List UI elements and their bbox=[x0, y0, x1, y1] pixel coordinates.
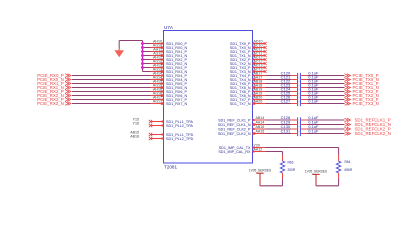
wire stub bus to pin row 4 bbox=[143, 55, 151, 57]
capacitor C120 0.1uF (series AC coupling) bbox=[281, 70, 319, 78]
pin SD1_RX5_N (AG15) left row 12 bbox=[151, 84, 188, 90]
svg-text:T2081: T2081 bbox=[164, 164, 177, 169]
port PCIE_TX2_N bbox=[345, 93, 379, 98]
IC U7A (T2081 SerDes block) body bbox=[164, 31, 253, 164]
pin SD1_REF_CLK1_P (AB14) bbox=[218, 116, 265, 122]
wire capacitor C124 to port PCIE_TX2_P bbox=[307, 91, 345, 93]
wire net PCIE_RX1_N bbox=[72, 87, 151, 89]
svg-text:PCIE_TX3_N: PCIE_TX3_N bbox=[353, 101, 379, 106]
resistor R63 200R bbox=[280, 155, 296, 179]
no-ERC marker on pin SD1_PLL1_TPD bbox=[149, 133, 152, 136]
port SD1_REFCLK2_N bbox=[345, 131, 391, 136]
svg-text:AA14: AA14 bbox=[256, 121, 265, 125]
port PCIE_TX3_P bbox=[345, 97, 379, 102]
wire capacitor C129 to port SD1_REFCLK1_N bbox=[307, 124, 345, 126]
wire pin to capacitor C120 bbox=[266, 75, 292, 77]
pin SD1_TX7_P (AB20) right row 15 bbox=[230, 96, 266, 102]
pin SD1_RX4_P (AH14) left row 9 bbox=[151, 72, 188, 78]
capacitor C123 0.1uF (series AC coupling) bbox=[281, 82, 319, 90]
wire capacitor C121 to port PCIE_TX0_N bbox=[307, 79, 345, 81]
wire capacitor C128 to port SD1_REFCLK1_P bbox=[307, 119, 345, 121]
svg-text:AA20: AA20 bbox=[254, 100, 263, 104]
pin SD1_TX4_P (AB17) right row 9 bbox=[230, 72, 266, 78]
svg-text:SD1_REF_CLK1_P: SD1_REF_CLK1_P bbox=[218, 118, 251, 122]
no-ERC marker on unused pin SD1_TX0_N bbox=[264, 46, 267, 49]
no-ERC marker on unused pin SD1_TX1_P bbox=[264, 50, 267, 53]
pin SD1_TX3_P (AD13) right row 7 bbox=[230, 64, 266, 70]
designator U7A bbox=[164, 25, 174, 30]
capacitor C125 0.1uF (series AC coupling) bbox=[281, 90, 319, 98]
wire net PCIE_RX2_P bbox=[72, 91, 151, 93]
junction on bus row 1 bbox=[141, 42, 144, 45]
svg-text:SD1_REF_CLK1_N: SD1_REF_CLK1_N bbox=[218, 123, 251, 127]
pin SD1_TX1_N (AC11) right row 4 bbox=[230, 52, 266, 58]
svg-text:SD1_RX7_N: SD1_RX7_N bbox=[166, 102, 187, 106]
svg-text:C131: C131 bbox=[281, 128, 291, 133]
capacitor C122 0.1uF (series AC coupling) bbox=[281, 78, 319, 86]
pin SD1_RX0_P (AH10) left row 1 bbox=[151, 40, 188, 46]
pin SD1_TX4_N (AA17) right row 10 bbox=[230, 76, 266, 82]
svg-text:AG17: AG17 bbox=[153, 100, 162, 104]
wire net PCIE_RX0_N bbox=[72, 79, 151, 81]
svg-text:SD1_PLL2_TPA: SD1_PLL2_TPA bbox=[166, 124, 193, 128]
pin SD1_RX1_P (AH11) left row 3 bbox=[151, 48, 188, 54]
wire stub bus to pin row 6 bbox=[143, 63, 151, 65]
wire net PCIE_RX1_P bbox=[72, 83, 151, 85]
svg-text:SD1_IMP_CAL_RX: SD1_IMP_CAL_RX bbox=[218, 150, 251, 154]
wire pin to capacitor C122 bbox=[266, 83, 292, 85]
pin SD1_TX2_P (AD12) right row 5 bbox=[230, 56, 266, 62]
pin SD1_PLL2_TPA (Y16) bbox=[133, 122, 194, 128]
capacitor C121 0.1uF (series AC coupling) bbox=[281, 74, 319, 82]
capacitor C127 0.1uF (series AC coupling) bbox=[281, 98, 319, 106]
port SD1_REFCLK2_P bbox=[345, 126, 391, 131]
wire pin to capacitor C126 bbox=[266, 99, 292, 101]
wire pin to capacitor C121 bbox=[266, 79, 292, 81]
svg-text:0.1uF: 0.1uF bbox=[308, 128, 319, 133]
pin SD1_TX5_N (AA18) right row 12 bbox=[230, 84, 266, 90]
ground arrow symbol (tie-off for unused RX inputs) bbox=[114, 49, 124, 58]
wire capacitor C126 to port PCIE_TX3_P bbox=[307, 99, 345, 101]
capacitor C124 0.1uF (series AC coupling) bbox=[281, 86, 319, 94]
no-ERC marker on unused pin SD1_TX1_N bbox=[264, 54, 267, 57]
svg-text:696R: 696R bbox=[345, 168, 353, 172]
pin SD1_RX2_N (AG12) left row 6 bbox=[151, 60, 188, 66]
svg-text:Y16: Y16 bbox=[133, 122, 139, 126]
wire bus top to arrow bbox=[119, 41, 142, 49]
port PCIE_TX1_N bbox=[345, 85, 379, 90]
pin SD1_RX3_P (AH13) left row 7 bbox=[151, 64, 188, 70]
port PCIE_RX2_P bbox=[37, 89, 71, 94]
wire net PCIE_RX0_P bbox=[72, 75, 151, 77]
no-ERC marker on unused pin SD1_TX2_P bbox=[264, 58, 267, 61]
port PCIE_RX0_P bbox=[37, 73, 71, 78]
no-ERC marker on unused pin SD1_TX2_N bbox=[264, 62, 267, 65]
pin SD1_TX3_N (AC13) right row 8 bbox=[230, 68, 266, 74]
port PCIE_RX3_N bbox=[37, 101, 71, 106]
pin SD1_PLL2_TPD (AB16) bbox=[130, 135, 193, 141]
wire net PCIE_RX3_N bbox=[72, 103, 151, 105]
port PCIE_RX0_N bbox=[37, 77, 71, 82]
svg-text:C127: C127 bbox=[281, 98, 291, 103]
junction on bus row 7 bbox=[141, 66, 144, 69]
wire SD1_IMP_CAL_RX to R63 bbox=[266, 152, 283, 155]
power port 1V05_SERDES (R64) bbox=[305, 170, 327, 186]
pin SD1_RX6_N (AG16) left row 14 bbox=[151, 92, 188, 98]
svg-text:AB15: AB15 bbox=[256, 125, 265, 129]
pin SD1_TX2_N (AC12) right row 6 bbox=[230, 60, 266, 66]
wire capacitor C123 to port PCIE_TX1_N bbox=[307, 87, 345, 89]
capacitor C126 0.1uF (series AC coupling) bbox=[281, 94, 319, 102]
wire R64 bottom to power stem bbox=[316, 179, 339, 186]
resistor R64 696R bbox=[336, 155, 352, 179]
svg-text:AB16: AB16 bbox=[130, 135, 139, 139]
wire stub bus to pin row 5 bbox=[143, 59, 151, 61]
svg-text:SD1_REFCLK2_N: SD1_REFCLK2_N bbox=[355, 131, 391, 136]
svg-text:SD1_REF_CLK2_P: SD1_REF_CLK2_P bbox=[218, 127, 251, 131]
svg-text:SD1_PLL2_TPD: SD1_PLL2_TPD bbox=[166, 137, 194, 141]
no-ERC marker on unused pin SD1_TX3_P bbox=[264, 66, 267, 69]
pin SD1_REF_CLK2_N (AA15) bbox=[218, 130, 266, 136]
no-ERC marker on unused pin SD1_TX3_N bbox=[264, 70, 267, 73]
no-ERC marker on pin SD1_PLL2_TPD bbox=[149, 137, 152, 140]
pin SD1_PLL1_TPA (Y15) bbox=[133, 118, 194, 124]
port PCIE_TX0_P bbox=[345, 73, 379, 78]
svg-text:200R: 200R bbox=[288, 168, 296, 172]
wire net PCIE_RX3_P bbox=[72, 99, 151, 101]
junction on bus row 4 bbox=[141, 54, 144, 57]
port PCIE_RX3_P bbox=[37, 97, 71, 102]
wire capacitor C130 to port SD1_REFCLK2_P bbox=[307, 128, 345, 130]
pin SD1_IMP_CAL_RX (AA12) bbox=[218, 148, 265, 154]
svg-text:R64: R64 bbox=[345, 160, 351, 164]
wire net PCIE_RX2_N bbox=[72, 95, 151, 97]
no-ERC marker on pin SD1_PLL1_TPA bbox=[149, 120, 152, 123]
no-ERC marker on pin SD1_PLL2_TPA bbox=[149, 124, 152, 127]
pin SD1_TX5_P (AB18) right row 11 bbox=[230, 80, 266, 86]
port SD1_REFCLK1_P bbox=[345, 117, 391, 122]
svg-text:0.1uF: 0.1uF bbox=[308, 98, 319, 103]
pin SD1_RX5_P (AH15) left row 11 bbox=[151, 80, 188, 86]
wire capacitor C122 to port PCIE_TX1_P bbox=[307, 83, 345, 85]
svg-text:AB14: AB14 bbox=[256, 116, 265, 120]
pin SD1_REF_CLK1_N (AA14) bbox=[218, 121, 266, 127]
port SD1_REFCLK1_N bbox=[345, 122, 391, 127]
port PCIE_TX1_P bbox=[345, 81, 379, 86]
wire SD1_IMP_CAL_TX to R64 bbox=[266, 148, 339, 155]
wire capacitor C125 to port PCIE_TX2_N bbox=[307, 95, 345, 97]
pin SD1_RX1_N (AG11) left row 4 bbox=[151, 52, 188, 58]
pin SD1_PLL1_TPD (AB15) bbox=[130, 131, 193, 137]
svg-text:AA15: AA15 bbox=[256, 130, 265, 134]
wire pin to capacitor C123 bbox=[266, 87, 292, 89]
wire pin to capacitor C124 bbox=[266, 91, 292, 93]
wire pin to capacitor C131 bbox=[266, 133, 292, 135]
pin SD1_TX7_N (AA20) right row 16 bbox=[230, 100, 266, 106]
pin SD1_RX7_P (AH17) left row 15 bbox=[151, 96, 188, 102]
wire capacitor C127 to port PCIE_TX3_N bbox=[307, 103, 345, 105]
no-ERC marker on unused pin SD1_TX0_P bbox=[264, 42, 267, 45]
svg-text:SD1_REF_CLK2_N: SD1_REF_CLK2_N bbox=[218, 132, 251, 136]
port PCIE_RX1_N bbox=[37, 85, 71, 90]
wire capacitor C131 to port SD1_REFCLK2_N bbox=[307, 133, 345, 135]
svg-text:U7A: U7A bbox=[164, 25, 174, 30]
pin SD1_RX4_N (AG14) left row 10 bbox=[151, 76, 188, 82]
wire R63 bottom to power stem bbox=[260, 179, 283, 186]
capacitor C130 0.1uF (refclk AC coupling) bbox=[281, 124, 319, 132]
power port 1V05_SERDES (R63) bbox=[249, 168, 271, 185]
pin SD1_REF_CLK2_P (AB15) bbox=[218, 125, 265, 131]
svg-text:R63: R63 bbox=[288, 161, 294, 165]
pin SD1_TX6_N (AA19) right row 14 bbox=[230, 92, 266, 98]
pin SD1_TX0_N (AC10) right row 2 bbox=[230, 44, 266, 50]
port PCIE_RX1_P bbox=[37, 81, 71, 86]
port PCIE_RX2_N bbox=[37, 93, 71, 98]
port PCIE_TX3_N bbox=[345, 101, 379, 106]
pin SD1_TX0_P (AD10) right row 1 bbox=[230, 40, 266, 46]
value T2081 bbox=[164, 164, 177, 169]
wire pin to capacitor C125 bbox=[266, 95, 292, 97]
port PCIE_TX2_P bbox=[345, 89, 379, 94]
pin SD1_TX6_P (AB19) right row 13 bbox=[230, 88, 266, 94]
wire stub bus to pin row 2 bbox=[143, 47, 151, 49]
svg-text:PCIE_RX3_N: PCIE_RX3_N bbox=[37, 101, 64, 106]
pin SD1_RX6_P (AH16) left row 13 bbox=[151, 88, 188, 94]
junction on bus row 6 bbox=[141, 62, 144, 65]
pin SD1_RX2_P (AH12) left row 5 bbox=[151, 56, 188, 62]
wire pin to capacitor C130 bbox=[266, 128, 292, 130]
pin SD1_RX3_N (AG13) left row 8 bbox=[151, 68, 188, 74]
capacitor C129 0.1uF (refclk AC coupling) bbox=[281, 119, 319, 127]
capacitor C131 0.1uF (refclk AC coupling) bbox=[281, 128, 319, 136]
svg-text:1V05_SERDES: 1V05_SERDES bbox=[305, 170, 327, 174]
wire stub bus to pin row 7 bbox=[143, 67, 151, 69]
svg-text:AA12: AA12 bbox=[254, 148, 263, 152]
wire pin to capacitor C127 bbox=[266, 103, 292, 105]
svg-text:SD1_TX7_N: SD1_TX7_N bbox=[230, 102, 251, 106]
wire stub bus to pin row 8 bbox=[143, 71, 151, 73]
wire stub bus to pin row 1 bbox=[143, 43, 151, 45]
wire pin to capacitor C128 bbox=[266, 119, 292, 121]
wire vertical bus tying SD1_RX0..RX3 pins bbox=[142, 41, 144, 72]
wire stub bus to pin row 3 bbox=[143, 51, 151, 53]
port PCIE_TX0_N bbox=[345, 77, 379, 82]
pin SD1_RX0_N (AG10) left row 2 bbox=[151, 44, 188, 50]
wire pin to capacitor C129 bbox=[266, 124, 292, 126]
svg-text:1V05_SERDES: 1V05_SERDES bbox=[249, 168, 271, 172]
junction on bus row 2 bbox=[141, 46, 144, 49]
pin SD1_IMP_CAL_TX (Y20) bbox=[219, 144, 266, 150]
junction on bus row 3 bbox=[141, 50, 144, 53]
pin SD1_RX7_N (AG17) left row 16 bbox=[151, 100, 188, 106]
junction on bus row 5 bbox=[141, 58, 144, 61]
capacitor C128 0.1uF (refclk AC coupling) bbox=[281, 115, 319, 123]
wire capacitor C120 to port PCIE_TX0_P bbox=[307, 75, 345, 77]
pin SD1_TX1_P (AD11) right row 3 bbox=[230, 48, 266, 54]
